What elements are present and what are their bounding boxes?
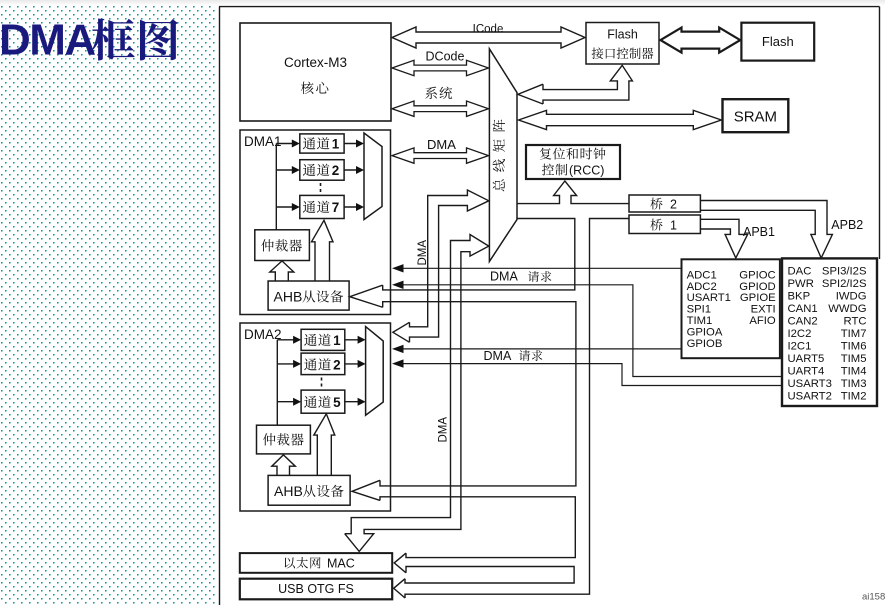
svg-text:TIM2: TIM2	[841, 390, 867, 402]
hollow arrow AHB slave2 to channel5	[314, 414, 335, 476]
label 以太网 MAC	[285, 557, 321, 569]
svg-text:2: 2	[333, 358, 341, 373]
dashed ellipsis between channel2 and channel7	[320, 183, 322, 194]
wire DMA2 ch1 to mux	[345, 339, 363, 341]
svg-text:CAN2: CAN2	[788, 315, 818, 327]
label 通道7	[303, 201, 330, 213]
label 接口控制器	[592, 48, 654, 60]
box DMA2 controller	[240, 323, 391, 511]
label 总线矩阵 (vertical)	[493, 120, 506, 192]
frame top edge	[219, 6, 880, 8]
arrowhead DMA2 ch5-mux	[358, 398, 366, 406]
svg-text:5: 5	[333, 395, 341, 410]
svg-text:DMA2: DMA2	[244, 327, 282, 342]
arrowhead ch1-mux	[356, 140, 364, 148]
wire feed stub ch1	[276, 143, 297, 145]
svg-text:GPIOD: GPIOD	[739, 281, 775, 293]
svg-text:USART2: USART2	[788, 390, 832, 402]
svg-text:USART1: USART1	[687, 292, 731, 304]
svg-text:SPI2/I2S: SPI2/I2S	[822, 278, 867, 290]
box APB2 peripherals	[782, 258, 877, 406]
wire bridge1 to APB1 arrow (pair)	[700, 219, 747, 258]
svg-text:DMA: DMA	[490, 270, 518, 284]
box Flash memory	[741, 23, 814, 61]
svg-text:Flash: Flash	[762, 34, 794, 49]
hollow arrow into DMA2 AHB slave (head)	[352, 480, 380, 500]
arrowhead into ch1 (right-pointing)	[292, 140, 300, 148]
svg-text:APB1: APB1	[743, 225, 775, 239]
hollow arrow AHB slave to channel7	[312, 220, 334, 281]
svg-text:RTC: RTC	[843, 315, 866, 327]
wire DMA2 feed trunk	[276, 340, 278, 425]
svg-text:AHB: AHB	[274, 289, 303, 305]
arrowhead R4 into DMA2	[392, 359, 404, 367]
wire cascade: DMA1 AHB arrow bottom -> DMA2 AHB arrow top	[380, 302, 576, 486]
svg-text:ADC1: ADC1	[687, 269, 717, 281]
svg-text:UART4: UART4	[788, 365, 825, 377]
svg-text:USART3: USART3	[788, 378, 832, 390]
svg-text:GPIOE: GPIOE	[740, 292, 776, 304]
svg-text:I2C1: I2C1	[788, 340, 812, 352]
svg-text:2: 2	[332, 163, 340, 178]
svg-text:SRAM: SRAM	[734, 109, 777, 126]
double arrow Flash iface to Flash	[661, 28, 741, 53]
box DMA2 AHB slave AHB从设备	[268, 475, 350, 505]
svg-text:1: 1	[670, 219, 677, 233]
svg-text:DMA: DMA	[417, 240, 429, 266]
arrowhead DMA2 ch1-mux	[358, 336, 366, 344]
box DMA1 channel7	[300, 195, 344, 218]
wire feed stub DMA2 ch2	[277, 363, 298, 365]
dashed ellipsis between DMA2 ch2 and ch5	[321, 378, 323, 389]
hollow up arrow into RCC with AHB channel to bridges	[517, 181, 629, 204]
svg-text:AFIO: AFIO	[749, 315, 776, 327]
svg-text:DAC: DAC	[788, 265, 812, 277]
label 仲裁器1	[261, 239, 302, 251]
top gray gradient band	[0, 0, 885, 6]
box bridge1 桥1	[629, 215, 700, 234]
trapezoid DMA2 output mux	[366, 327, 384, 416]
box USB OTG FS	[240, 579, 392, 600]
svg-text:APB2: APB2	[831, 218, 863, 232]
svg-text:ICode: ICode	[473, 24, 504, 36]
hollow arrow into DMA1 AHB slave (head)	[350, 285, 383, 307]
svg-text:ai15896: ai15896	[862, 592, 885, 603]
label 通道1	[303, 137, 330, 149]
label 控制(RCC)	[542, 164, 567, 176]
svg-text:GPIOC: GPIOC	[739, 269, 775, 281]
svg-text:7: 7	[332, 200, 340, 215]
wire DMA request R1 (ADC1 to DMA1)	[402, 267, 682, 269]
diagram area background	[216, 0, 885, 605]
wire AHB channel top line: bus matrix to bridge2 side down to DMA1 AHB arrow	[383, 219, 575, 290]
arrowhead R3 into DMA2	[392, 345, 404, 353]
svg-text:UART5: UART5	[788, 353, 825, 365]
arrowhead ch7-mux	[356, 203, 364, 211]
box reset and clock control 复位和时钟控制(RCC)	[526, 145, 620, 179]
svg-text:TIM5: TIM5	[841, 353, 867, 365]
label 仲裁器2	[263, 433, 304, 445]
svg-text:TIM6: TIM6	[841, 340, 867, 352]
svg-text:TIM4: TIM4	[841, 365, 867, 377]
arrowhead into DMA2 ch1	[293, 336, 301, 344]
hollow arrow into USB OTG FS (head)	[394, 579, 405, 598]
box DMA1 controller	[240, 130, 391, 315]
svg-text:USB OTG FS: USB OTG FS	[278, 582, 354, 596]
arrowhead into ch7	[292, 203, 300, 211]
box DMA1 AHB slave AHB从设备	[268, 281, 349, 310]
svg-text:TIM7: TIM7	[841, 328, 867, 340]
svg-text:CAN1: CAN1	[788, 303, 818, 315]
double arrow DCode bus	[392, 60, 489, 75]
svg-text:Flash: Flash	[607, 28, 638, 42]
svg-text:I2C2: I2C2	[788, 328, 812, 340]
label 通道1 (DMA2)	[304, 334, 331, 346]
label 通道5	[304, 396, 331, 408]
frame left edge	[219, 7, 221, 605]
wire feed stub DMA2 ch5	[277, 401, 298, 403]
frame right edge	[879, 7, 881, 259]
wire feed stub ch2	[276, 169, 297, 171]
svg-text:Cortex-M3: Cortex-M3	[284, 55, 347, 70]
wire DMA request R2 (to DMA1)	[402, 285, 782, 377]
box DMA2 channel2	[301, 353, 345, 375]
wire ch2 to mux	[344, 169, 361, 171]
box DMA1 arbiter 仲裁器	[255, 230, 310, 261]
svg-text:1: 1	[333, 333, 341, 348]
hollow arrow AHB slave2 to arbiter2	[272, 455, 296, 476]
box bridge2 桥2	[629, 195, 700, 212]
svg-text:GPIOB: GPIOB	[687, 338, 723, 350]
double arrow bus matrix to SRAM	[519, 110, 722, 129]
svg-text:PWR: PWR	[788, 278, 814, 290]
svg-text:DCode: DCode	[426, 50, 465, 64]
svg-text:BKP: BKP	[788, 290, 811, 302]
hollow wire Ethernet MAC to bus matrix (wire B) with arrows both ends	[345, 235, 489, 552]
svg-text:GPIOA: GPIOA	[687, 327, 723, 339]
label 桥2	[650, 198, 662, 210]
arrowhead into DMA2 ch5	[293, 398, 301, 406]
box APB1 peripherals	[682, 259, 780, 358]
hollow wire DMA2 to bus matrix (wire A) with arrow into matrix	[393, 322, 410, 342]
wire cascade: DMA2 AHB arrow bottom -> Ethernet MAC arrow top	[380, 497, 575, 558]
hollow elbow arrow bus matrix to Flash interface	[518, 84, 543, 104]
box SRAM	[723, 99, 789, 132]
wire ch7 to mux	[344, 206, 361, 208]
wire DMA request R3 (GPIOB to DMA2)	[402, 348, 682, 350]
wire feed stub ch7	[276, 206, 297, 208]
arrowhead R2 into DMA1	[392, 281, 404, 289]
label 核心	[301, 82, 329, 95]
box DMA2 channel1	[301, 329, 345, 350]
svg-text:DMA: DMA	[484, 349, 512, 363]
wire DMA2 ch5 to mux	[345, 401, 363, 403]
svg-text:TIM3: TIM3	[841, 378, 867, 390]
box Cortex-M3 core	[240, 23, 391, 121]
arrowhead into ch2	[292, 166, 300, 174]
svg-text:1: 1	[332, 137, 340, 152]
double arrow system bus 系统	[392, 101, 489, 116]
wire DMA2 ch2 to mux	[345, 363, 363, 365]
svg-text:ADC2: ADC2	[687, 281, 717, 293]
svg-text:(RCC): (RCC)	[569, 164, 604, 178]
wire DMA request R4 (to DMA2)	[402, 364, 782, 386]
box DMA2 channel5	[301, 390, 345, 413]
wire bridge2 to APB2 arrow (pair)	[700, 201, 832, 259]
box DMA1 channel2	[300, 160, 344, 181]
hollow arrow AHB slave to arbiter1	[270, 261, 294, 281]
svg-text:SPI3/I2S: SPI3/I2S	[822, 265, 867, 277]
svg-text:AHB: AHB	[274, 483, 303, 499]
svg-text:SPI1: SPI1	[687, 304, 712, 316]
title 框图	[92, 18, 178, 60]
hollow arrow into Ethernet MAC (head)	[394, 553, 406, 573]
svg-text:WWDG: WWDG	[828, 303, 866, 315]
label 通道2 (DMA2)	[304, 358, 331, 370]
svg-text:MAC: MAC	[327, 557, 355, 571]
double arrow ICode bus	[392, 27, 585, 48]
label 通道2	[303, 164, 330, 176]
svg-text:TIM1: TIM1	[687, 315, 713, 327]
double arrow DMA bus	[392, 148, 489, 163]
label 系统	[425, 87, 452, 100]
box DMA1 channel1	[300, 134, 344, 153]
label 桥1	[650, 219, 662, 231]
arrowhead DMA2 ch2-mux	[358, 360, 366, 368]
dotted left background strip	[0, 5, 216, 605]
bus matrix polygon 总线矩阵	[489, 49, 517, 262]
arrowhead R1 into DMA1	[392, 264, 404, 272]
svg-text:2: 2	[670, 198, 677, 212]
svg-text:DMA: DMA	[438, 417, 450, 443]
box Ethernet MAC 以太网MAC	[240, 553, 392, 573]
wire ch1 to mux	[344, 143, 361, 145]
trapezoid DMA1 output mux	[364, 133, 382, 220]
arrowhead into DMA2 ch2	[293, 360, 301, 368]
svg-text:DMA: DMA	[427, 137, 456, 152]
box DMA2 arbiter 仲裁器	[257, 425, 311, 454]
box Flash interface controller Flash接口控制器	[586, 23, 659, 65]
arrowhead ch2-mux	[356, 166, 364, 174]
wire DMA1 feed trunk	[275, 144, 277, 230]
wire cascade: USB arrow bottom -> up to bridge1	[405, 219, 629, 599]
label 复位和时钟	[540, 148, 606, 160]
svg-text:DMA: DMA	[0, 16, 95, 65]
wire feed stub DMA2 ch1	[277, 339, 298, 341]
wire cascade: Ethernet arrow bottom -> USB arrow top	[405, 567, 574, 584]
svg-text:EXTI: EXTI	[751, 304, 776, 316]
svg-text:IWDG: IWDG	[836, 290, 867, 302]
